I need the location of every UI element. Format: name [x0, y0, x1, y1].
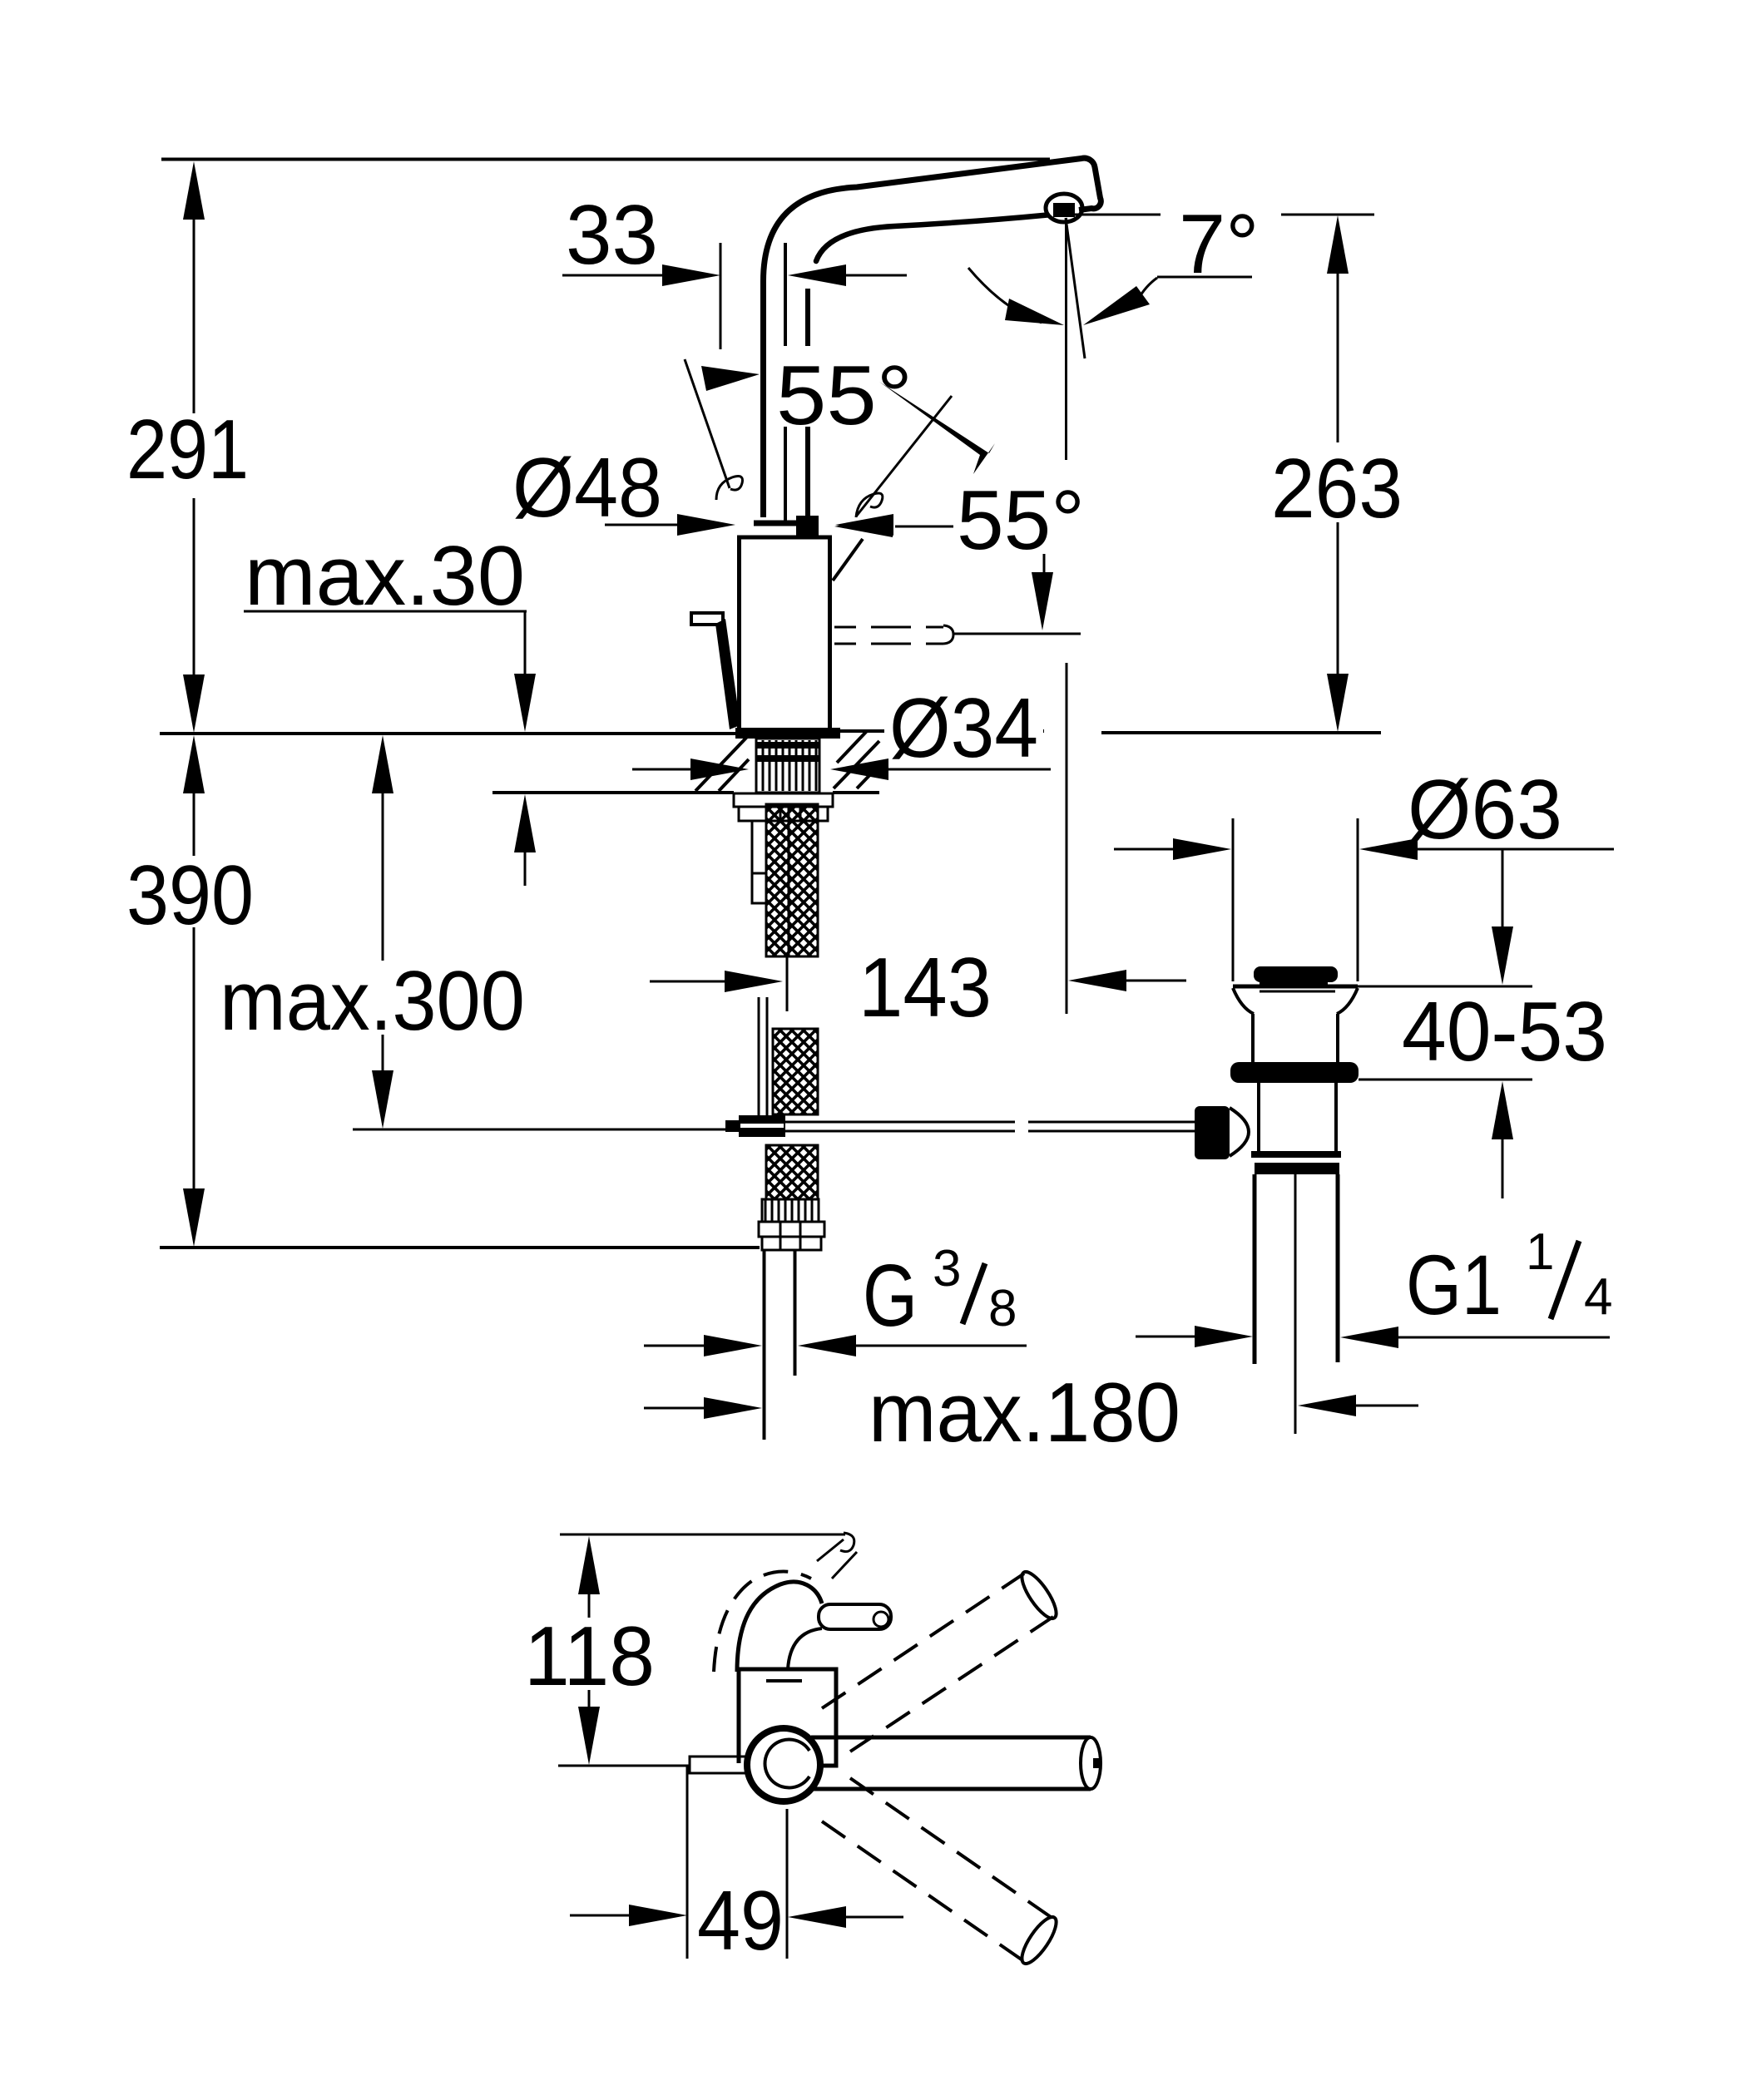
angle 55deg left indicator curl: [716, 477, 743, 500]
overall height reference line (top): [161, 158, 1050, 161]
drain flange top: [1233, 985, 1358, 989]
dimension 40-53 lower line: [1502, 1138, 1504, 1198]
top view handle lowered edge 2: [822, 1821, 1025, 1962]
lever post cap: [796, 516, 819, 536]
top view body outline: [739, 1669, 836, 1766]
countertop hatch right 2: [857, 765, 879, 788]
dimension 40-53 lower reference line: [1359, 1079, 1532, 1081]
dimension 263 line lower: [1337, 522, 1339, 675]
dimension 390 line upper: [193, 792, 195, 856]
svg-text:263: 263: [1271, 442, 1403, 536]
dimension D34 left line: [632, 768, 692, 771]
dimension 40-53 up arrow: [1492, 1081, 1513, 1139]
dimension 118 line upper: [588, 1593, 591, 1618]
top view handle end tick: [1093, 1758, 1099, 1768]
dimension max180 right line: [1356, 1405, 1418, 1407]
countertop underside left: [492, 791, 734, 794]
dimension G38 left line: [644, 1345, 705, 1347]
threaded shank band 2: [756, 755, 819, 762]
drain body lower band 2: [1255, 1163, 1339, 1174]
angle 55deg left indicator line: [685, 359, 730, 488]
dimension 33 right line: [846, 274, 907, 277]
dimension 118 line lower: [588, 1690, 591, 1708]
mounting bracket: [752, 821, 766, 903]
drain flange left curve: [1233, 988, 1254, 1014]
braided hose upper divider: [788, 804, 790, 956]
svg-text:Ø34: Ø34: [889, 682, 1038, 775]
dimension 49 right line: [844, 1916, 903, 1919]
lever axis dashed line lower: [834, 643, 943, 645]
top view lever pin: [819, 1604, 891, 1629]
pop-up rod horizontal single: [353, 1129, 739, 1131]
pop-up rod clamp: [739, 1115, 785, 1137]
drain body left side: [1257, 1083, 1260, 1153]
svg-text:Ø63: Ø63: [1408, 763, 1562, 857]
dimension G114 right arrow: [1340, 1327, 1398, 1348]
supply pipe right edge: [794, 1250, 797, 1376]
dimension D63 extension left: [1232, 818, 1235, 981]
hose end nut lower: [762, 1237, 821, 1250]
drain tailpipe right: [1336, 1174, 1340, 1362]
angle 55deg left arrow: [701, 366, 760, 391]
svg-text:3: 3: [933, 1240, 961, 1297]
svg-text:8: 8: [988, 1280, 1017, 1337]
dimension D63 right arrow: [1359, 838, 1418, 860]
dimension D63 extension right: [1357, 818, 1359, 981]
dimension max30 leader vertical: [524, 611, 527, 676]
svg-text:291: 291: [126, 403, 249, 497]
dimension 143 right line: [1126, 980, 1186, 982]
top view spout dashed arc: [714, 1571, 811, 1672]
drain push button: [1254, 966, 1338, 982]
drain body lower band 1: [1251, 1151, 1341, 1158]
dimension D63 left line: [1114, 848, 1175, 851]
angle 55deg cross arrow: [879, 382, 995, 474]
dimension 40-53 upper line: [1502, 849, 1504, 926]
supply center line: [786, 956, 789, 1011]
dimension 49 extension left: [686, 1766, 689, 1959]
countertop hatch left 1: [695, 736, 748, 791]
supply pipe left edge: [763, 1250, 766, 1440]
dimension G38 right line: [856, 1345, 1027, 1347]
dimension 291 line upper: [193, 218, 195, 413]
angle 7deg leader line: [1157, 276, 1252, 279]
dimension max300 line lower: [382, 1035, 384, 1073]
svg-text:max.30: max.30: [245, 530, 525, 623]
dimension D34 label: [884, 682, 1043, 775]
body collar: [754, 521, 815, 526]
top view handle lowered cap: [1016, 1912, 1062, 1968]
hose end nut facet 1: [779, 1222, 782, 1250]
dimension D34 left arrow: [690, 758, 749, 780]
mounting nut facet 2: [799, 807, 802, 821]
dimension 291 line lower: [193, 498, 195, 677]
top view curl tick 2: [832, 1552, 857, 1579]
dimension 40-53 upper reference line: [1358, 986, 1532, 988]
hose end fitting threads: [762, 1199, 819, 1222]
drain ball joint: [1230, 1108, 1249, 1156]
spout underside: [816, 215, 1047, 262]
countertop surface right: [840, 729, 1044, 733]
handle lever blade: [715, 619, 740, 729]
svg-text:max.300: max.300: [220, 955, 525, 1048]
drain neck right: [1336, 1014, 1339, 1062]
spout aerator detail: [1053, 203, 1075, 217]
dimension G114 left arrow: [1195, 1326, 1253, 1347]
dimension D63 right line: [1418, 848, 1614, 851]
lever axis extension line: [953, 633, 1081, 635]
svg-text:390: 390: [126, 849, 254, 942]
dimension max30 up arrow: [514, 794, 536, 852]
top view handle end cap: [1081, 1737, 1101, 1789]
top view set screw tab: [690, 1757, 746, 1773]
angle 7deg right arc: [1138, 278, 1157, 299]
threaded shank threads: [763, 740, 816, 791]
dimension 263 up arrow: [1327, 215, 1349, 274]
dimension max300 down arrow: [372, 1070, 393, 1129]
dimension 390 down arrow: [183, 1188, 205, 1247]
braided hose upper block: [766, 804, 818, 956]
angle 55deg right indicator line: [856, 396, 952, 516]
top view handle bottom edge: [811, 1787, 1091, 1791]
angle 7deg left arc arrow: [1005, 299, 1064, 325]
dimension max30 lower tail: [524, 851, 527, 886]
top view handle top edge: [811, 1736, 1091, 1740]
drain tailpipe left: [1253, 1174, 1257, 1364]
thread label G3/8 slash: [963, 1263, 985, 1324]
drain body right side: [1334, 1083, 1338, 1153]
dimension max300 line upper: [382, 792, 384, 961]
dimension 143 right arrow: [1068, 970, 1126, 991]
countertop surface left: [160, 732, 735, 735]
dimension D48 right arrow: [835, 514, 893, 536]
top view spout curve outer: [737, 1582, 822, 1672]
dimension 291 up arrow: [183, 161, 205, 220]
dimension 291 down arrow: [183, 674, 205, 733]
dimension G38 right arrow: [798, 1335, 856, 1356]
dimension D48 left line: [605, 524, 677, 526]
svg-text:33: 33: [566, 189, 658, 282]
bottom reference line: [160, 1246, 760, 1249]
dimension G38 left arrow: [704, 1335, 762, 1356]
svg-text:118: 118: [524, 1610, 655, 1703]
angle 55deg down leader line: [1043, 554, 1046, 586]
lever axis end bracket: [943, 625, 953, 644]
top view spout curve inner: [788, 1628, 822, 1669]
svg-text:max.180: max.180: [869, 1366, 1180, 1460]
faucet body left side: [737, 537, 741, 729]
drain lever knob: [1195, 1106, 1230, 1159]
pop-up rod clamp screw: [725, 1120, 739, 1132]
angle 7deg spout level line left: [1068, 214, 1161, 216]
dimension 33 right arrow: [788, 264, 846, 286]
pop-up rod horizontal top a: [785, 1121, 1015, 1124]
mounting nut facet 1: [779, 807, 782, 821]
angle 7deg vertical reference: [1065, 218, 1067, 460]
svg-text:G1: G1: [1406, 1238, 1502, 1332]
dimension 118 up arrow: [578, 1536, 600, 1594]
hose end nut upper: [759, 1222, 824, 1237]
angle 55deg short indicator line: [833, 539, 863, 581]
dimension 33 extension line: [720, 243, 722, 349]
drain flange right curve: [1337, 988, 1358, 1014]
faucet body base plate: [735, 728, 840, 739]
dimension 49 left line: [570, 1915, 631, 1917]
top view body slot: [766, 1679, 802, 1682]
pop-up rod horizontal bottom b: [1028, 1130, 1195, 1133]
dimension 263 down arrow: [1327, 674, 1349, 732]
svg-text:55°: 55°: [957, 474, 1085, 567]
dimension D34 right arrow: [830, 758, 888, 780]
dimension 143 left line: [650, 981, 726, 983]
top view upper reference line: [560, 1534, 845, 1536]
lever post: [805, 289, 810, 517]
dimension 40-53 down arrow: [1492, 926, 1513, 985]
dimension G114 right line: [1398, 1337, 1610, 1339]
dimension 143 left arrow: [725, 971, 783, 992]
countertop hatch right 3: [837, 731, 867, 763]
mounting washer: [734, 793, 833, 807]
svg-text:55°: 55°: [776, 349, 913, 442]
angle 7deg spout level line right: [1281, 214, 1374, 216]
dimension 118 down arrow: [578, 1707, 600, 1765]
lever axis dashed line upper: [834, 626, 943, 629]
spout aerator outline: [1046, 194, 1082, 222]
top view handle lowered edge 1: [850, 1778, 1053, 1919]
spout outline: [764, 158, 1101, 517]
dimension 143 extension line: [1066, 663, 1068, 1014]
countertop hatch right 1: [834, 741, 879, 788]
thread label G1 1/4 slash: [1551, 1241, 1579, 1319]
top view reference curl: [840, 1533, 854, 1552]
svg-text:G: G: [863, 1247, 918, 1345]
svg-text:143: 143: [859, 941, 992, 1035]
top view curl tick 1: [817, 1539, 844, 1561]
countertop underside right: [833, 791, 879, 794]
body top edge: [737, 536, 832, 540]
top view handle raised cap: [1016, 1567, 1062, 1623]
drain tailpipe center line: [1294, 1163, 1297, 1434]
pop-up rod clamp slit: [740, 1124, 784, 1128]
svg-text:1: 1: [1526, 1223, 1554, 1281]
angle 55deg top label: [766, 346, 918, 442]
svg-text:49: 49: [697, 1875, 784, 1968]
angle 7deg tilted line: [1066, 218, 1085, 358]
top view lower reference line: [558, 1765, 690, 1767]
mounting nut: [739, 807, 828, 821]
riser tube inner line: [784, 243, 787, 524]
dimension 49 left arrow: [629, 1905, 687, 1926]
drain push button base: [1260, 982, 1328, 986]
top view handle raised edge 1: [822, 1574, 1024, 1708]
pop-up rod horizontal top b: [1028, 1121, 1195, 1124]
hose end nut facet 2: [799, 1222, 802, 1250]
top view hub inner: [765, 1740, 809, 1788]
pop-up rod vertical left edge: [758, 997, 760, 1118]
top view hub outer: [747, 1728, 820, 1801]
dimension 49 extension right: [786, 1809, 789, 1959]
dimension 390 up arrow: [183, 735, 205, 793]
threaded shank band 1: [756, 742, 819, 749]
countertop surface far right: [1101, 731, 1381, 734]
pop-up rod vertical right edge: [766, 997, 769, 1118]
dimension 263 line upper: [1337, 272, 1339, 442]
dimension G114 left line: [1136, 1336, 1196, 1338]
angle 7deg right arc arrow: [1083, 286, 1150, 325]
dimension max180 left line: [644, 1407, 705, 1410]
drain seal washer: [1230, 1062, 1359, 1083]
angle 55deg right leader line: [895, 526, 953, 528]
angle 55deg right leader arrow: [834, 516, 893, 537]
dimension 33 left arrow: [662, 264, 720, 286]
dimension max300 up arrow: [372, 735, 393, 793]
top view lever pin end: [874, 1612, 888, 1627]
dimension max180 left arrow: [704, 1397, 762, 1419]
threaded shank outline: [756, 739, 819, 793]
mounting bracket divider: [752, 872, 766, 875]
braided hose middle block: [773, 1029, 818, 1114]
countertop hatch left 2: [719, 759, 749, 791]
dimension 390 line lower: [193, 927, 195, 1191]
pop-up rod horizontal bottom a: [785, 1130, 1015, 1133]
dimension D63 left arrow: [1173, 838, 1231, 860]
dimension D48 left arrow: [677, 514, 735, 536]
dimension max30 down arrow: [514, 674, 536, 732]
top view handle raised edge 2: [850, 1617, 1053, 1752]
drain neck left: [1251, 1014, 1255, 1062]
svg-text:40-53: 40-53: [1402, 986, 1607, 1079]
svg-text:4: 4: [1584, 1268, 1612, 1326]
angle 55deg down leader arrow: [1032, 572, 1053, 630]
dimension 33 left line: [562, 274, 664, 277]
faucet body right side: [828, 537, 832, 729]
drain flange inner edge: [1260, 991, 1335, 993]
angle 7deg left arc: [968, 268, 1042, 323]
dimension 49 right arrow: [788, 1906, 846, 1928]
angle 55deg right indicator curl: [856, 493, 883, 517]
dimension max180 right arrow: [1298, 1395, 1356, 1416]
svg-text:Ø48: Ø48: [512, 442, 662, 535]
braided hose lower block: [766, 1145, 818, 1199]
handle lever bar: [691, 613, 723, 625]
dimension max30 underline: [244, 610, 527, 613]
dimension D34 right line: [887, 768, 1051, 771]
